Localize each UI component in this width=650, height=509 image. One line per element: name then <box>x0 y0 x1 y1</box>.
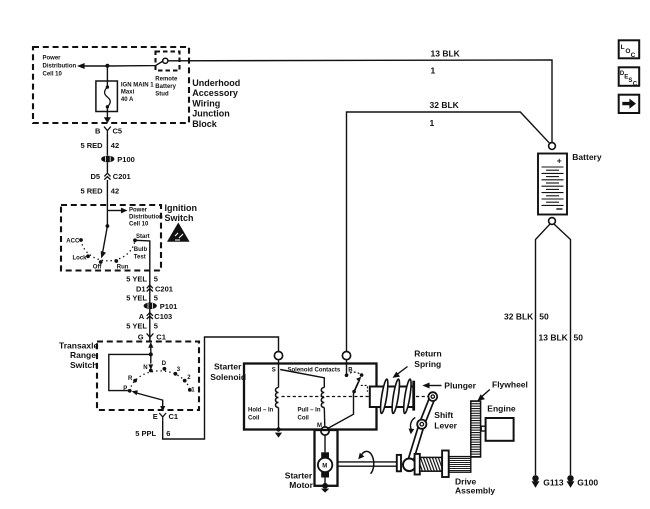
wire 5 RED 42 (C201 to ignition switch) <box>106 180 108 226</box>
svg-text:Start: Start <box>136 234 150 240</box>
svg-text:Wiring: Wiring <box>192 98 220 108</box>
drive spring (hatched) <box>420 457 442 471</box>
svg-text:A: A <box>139 312 145 321</box>
svg-text:32 BLK: 32 BLK <box>504 311 534 321</box>
svg-text:Transaxle: Transaxle <box>59 340 98 350</box>
warning triangle <box>167 223 190 242</box>
svg-text:Power: Power <box>43 56 62 62</box>
wire <box>106 162 108 172</box>
svg-text:P101: P101 <box>160 302 178 311</box>
junction block dashed box <box>33 47 189 123</box>
svg-text:5 YEL: 5 YEL <box>126 322 147 331</box>
svg-text:Lever: Lever <box>434 420 457 430</box>
terminal arrow out of switch <box>160 406 165 412</box>
transaxle range switch dashed box <box>97 342 199 411</box>
ignition rotary arc <box>81 240 135 261</box>
contact fixed dot <box>360 373 364 377</box>
return spring coils <box>379 379 413 414</box>
wire 13 BLK: junction block to battery <box>168 60 552 142</box>
shift lever motion arrow <box>410 418 415 431</box>
svg-text:C: C <box>633 81 638 87</box>
wire: switch feed <box>150 347 152 364</box>
svg-text:P100: P100 <box>117 155 135 164</box>
starter solenoid box <box>244 364 377 430</box>
node: feed junction <box>149 352 153 356</box>
plunger axis dashed <box>282 396 370 398</box>
svg-text:Starter: Starter <box>285 470 313 480</box>
switch blade P to output <box>137 393 163 407</box>
arrow legend box <box>619 95 640 113</box>
node 2 <box>183 379 187 383</box>
ground G113 <box>532 475 538 481</box>
remote battery stud terminal <box>163 58 168 63</box>
svg-text:N: N <box>143 365 147 371</box>
plunger axis dashed (right) <box>416 396 428 398</box>
wire: start contact to output <box>135 240 150 270</box>
svg-text:Flywheel: Flywheel <box>492 380 528 390</box>
ground (hold-in coil) <box>275 433 282 438</box>
svg-text:5: 5 <box>154 293 158 302</box>
shaft rotation arrow <box>361 451 373 473</box>
svg-text:Distribution: Distribution <box>43 64 77 70</box>
ignition switch blade <box>103 226 108 253</box>
svg-text:C5: C5 <box>113 126 123 135</box>
node Lock <box>86 254 90 258</box>
svg-text:Assembly: Assembly <box>455 486 495 496</box>
svg-text:Spring: Spring <box>414 359 441 369</box>
contact arm to M terminal <box>328 392 355 429</box>
svg-text:Battery: Battery <box>572 152 602 162</box>
terminal S <box>274 352 282 360</box>
fuse IGN MAIN 1 box <box>96 81 118 112</box>
wire 13 BLK to G100 <box>554 224 571 475</box>
plunger end plate <box>412 381 415 411</box>
terminal B <box>342 352 350 360</box>
svg-text:5 RED: 5 RED <box>81 141 104 150</box>
svg-text:D: D <box>162 361 167 367</box>
hold-in coil <box>278 360 280 388</box>
wire M to brush <box>324 435 326 452</box>
pull-in coil <box>321 388 324 408</box>
svg-text:E: E <box>153 412 158 421</box>
svg-text:5 YEL: 5 YEL <box>126 293 147 302</box>
wire: feed to power distribution with left arrow <box>84 61 163 66</box>
svg-text:Motor: Motor <box>289 480 313 490</box>
arrowhead left <box>77 63 85 69</box>
svg-text:R: R <box>128 376 133 382</box>
svg-text:50: 50 <box>539 311 549 321</box>
transaxle rotary arc <box>130 371 190 391</box>
svg-text:32 BLK: 32 BLK <box>430 100 460 110</box>
svg-text:S: S <box>272 368 276 374</box>
engine box <box>486 418 514 441</box>
svg-text:42: 42 <box>111 141 119 150</box>
wire: internal loop to P contact <box>109 354 151 390</box>
svg-text:Off: Off <box>93 265 103 271</box>
plunger body <box>370 387 414 408</box>
wire into fuse <box>106 66 108 87</box>
svg-text:C201: C201 <box>113 172 131 181</box>
svg-text:13 BLK: 13 BLK <box>539 332 569 342</box>
svg-text:Power: Power <box>129 207 148 213</box>
svg-text:G: G <box>138 332 144 341</box>
drive flange 2 <box>442 451 449 478</box>
svg-text:Coil: Coil <box>298 415 310 421</box>
svg-text:IGN MAIN 1: IGN MAIN 1 <box>121 83 154 89</box>
node Start <box>133 238 137 242</box>
wire 32 BLK: solenoid B to battery <box>347 112 551 351</box>
ground (starter motor) <box>322 483 328 489</box>
svg-text:Coil: Coil <box>248 415 260 421</box>
svg-text:1: 1 <box>430 118 435 128</box>
remote battery stud dashed box <box>156 52 180 71</box>
node R <box>133 379 137 383</box>
node: junction dot at fuse tap <box>105 64 109 68</box>
svg-text:Test: Test <box>134 255 146 261</box>
svg-text:Cell 10: Cell 10 <box>129 222 149 228</box>
svg-text:Cell 10: Cell 10 <box>43 72 63 78</box>
motor armature M <box>318 458 332 472</box>
svg-text:C103: C103 <box>154 312 172 321</box>
svg-text:Maxi: Maxi <box>121 90 135 96</box>
svg-text:G113: G113 <box>543 477 564 487</box>
svg-text:6: 6 <box>166 429 170 438</box>
svg-text:5 PPL: 5 PPL <box>135 429 156 438</box>
node N <box>149 369 153 373</box>
svg-text:C1: C1 <box>169 412 179 421</box>
svg-text:Underhood: Underhood <box>192 78 240 88</box>
svg-text:Stud: Stud <box>155 91 169 97</box>
svg-text:5: 5 <box>154 274 158 283</box>
motor brush top <box>321 452 329 458</box>
svg-text:C: C <box>631 52 636 59</box>
svg-text:Lock: Lock <box>73 256 88 262</box>
svg-text:ACC: ACC <box>66 238 80 244</box>
shift lever <box>409 392 437 465</box>
ignition switch dashed box <box>61 205 161 271</box>
svg-text:Range: Range <box>70 350 96 360</box>
svg-text:Block: Block <box>192 119 218 129</box>
movable contact arm <box>354 382 359 392</box>
svg-text:Pull – In: Pull – In <box>298 407 321 413</box>
svg-text:Shift: Shift <box>434 410 453 420</box>
node P <box>128 389 132 393</box>
wire brush to ground <box>324 478 326 484</box>
node 1 <box>188 388 192 392</box>
battery <box>549 143 556 150</box>
wire: fuse to terminal B <box>106 107 108 119</box>
svg-text:P: P <box>123 386 127 392</box>
wire 5 RED 42 (B C5 to P100) <box>106 134 108 156</box>
node: ignition feed junction <box>106 224 110 228</box>
svg-text:+: + <box>557 156 562 166</box>
lever ball <box>403 459 416 472</box>
node Run <box>114 259 118 263</box>
svg-text:B: B <box>95 126 101 135</box>
svg-text:C1: C1 <box>156 332 166 341</box>
svg-text:Distribution: Distribution <box>129 215 163 221</box>
svg-text:50: 50 <box>574 332 584 342</box>
svg-text:Plunger: Plunger <box>444 381 476 391</box>
solenoid contact: B stud <box>346 360 348 374</box>
svg-text:Switch: Switch <box>70 360 97 370</box>
LOC legend box <box>619 40 640 58</box>
svg-text:5 RED: 5 RED <box>81 186 104 195</box>
node 3 <box>174 372 178 376</box>
engine stub <box>481 426 485 431</box>
svg-text:Run: Run <box>117 265 129 271</box>
svg-text:G100: G100 <box>577 477 598 487</box>
drive splines (hatched) <box>449 457 471 473</box>
svg-text:Accessory: Accessory <box>192 88 238 98</box>
svg-text:1: 1 <box>431 65 436 75</box>
svg-text:Ignition: Ignition <box>165 203 198 213</box>
node D <box>163 367 167 371</box>
wire 5 PPL: transaxle to solenoid S <box>163 337 279 439</box>
contact gap dashed arc <box>347 372 362 375</box>
svg-text:42: 42 <box>111 186 119 195</box>
flywheel (toothed bar) <box>471 401 481 457</box>
svg-text:L: L <box>621 44 625 51</box>
svg-text:Bulb: Bulb <box>134 247 148 253</box>
splice P100 <box>101 156 114 163</box>
wire 5 YEL (ignition to transaxle) <box>149 271 151 342</box>
node: hold-in coil ground junction <box>276 427 280 431</box>
blade arrow to N <box>148 364 153 369</box>
svg-text:D1: D1 <box>136 284 146 293</box>
svg-text:D5: D5 <box>91 172 101 181</box>
wire: branch to power distribution <box>107 210 122 212</box>
wire 32 BLK to G113 <box>536 224 551 475</box>
motor shaft <box>338 462 397 466</box>
node ACC <box>79 238 83 242</box>
svg-text:Switch: Switch <box>165 213 194 223</box>
drive flange 1 <box>415 454 420 475</box>
svg-text:5: 5 <box>154 322 158 331</box>
svg-text:5 YEL: 5 YEL <box>126 274 147 283</box>
svg-text:C201: C201 <box>155 284 173 293</box>
splice P101 <box>144 303 157 310</box>
shaft end plate <box>397 455 401 471</box>
svg-text:Junction: Junction <box>192 109 230 119</box>
svg-text:13 BLK: 13 BLK <box>431 48 461 58</box>
pull-in coil feed <box>280 370 324 388</box>
svg-text:Engine: Engine <box>487 403 516 413</box>
DESC legend box <box>619 67 640 86</box>
svg-text:Starter: Starter <box>214 361 242 371</box>
svg-text:Solenoid: Solenoid <box>210 372 246 382</box>
connector C201 (D5) chevrons <box>104 173 110 179</box>
svg-text:Return: Return <box>414 348 441 358</box>
svg-text:Battery: Battery <box>155 84 176 90</box>
motor brush bottom <box>321 472 329 478</box>
fuse element <box>106 85 109 88</box>
terminal arrow into switch <box>148 342 153 348</box>
starter motor box <box>315 430 338 486</box>
node Off <box>99 260 103 264</box>
svg-text:M: M <box>322 463 327 469</box>
svg-text:Hold – In: Hold – In <box>248 407 274 413</box>
svg-text:40 A: 40 A <box>121 97 134 103</box>
contact to plunger dashed link <box>361 385 368 391</box>
ground G100 <box>567 475 573 481</box>
svg-text:Remote: Remote <box>155 76 178 82</box>
